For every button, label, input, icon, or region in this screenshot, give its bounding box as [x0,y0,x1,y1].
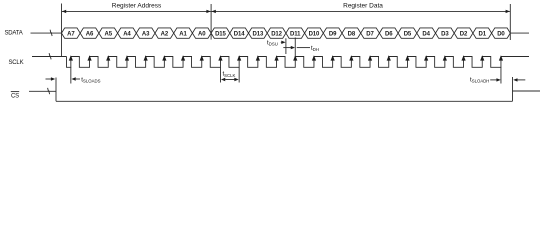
extension of SCLK rising edge r12 up (v2) [294,38,296,57]
svg-text:D1: D1 [479,31,487,37]
wire CS tail high [513,90,541,92]
svg-text:A3: A3 [142,31,150,37]
extension of SCLK rising edge r9 down [238,67,240,82]
svg-text:D14: D14 [234,31,245,37]
svg-text:D3: D3 [441,31,449,37]
svg-text:D5: D5 [404,31,412,37]
svg-text:D15: D15 [215,31,226,37]
wire SDATA bus bottom rail [62,28,511,38]
extension of SCLK rising edge r8 down [219,67,221,82]
svg-text:Register Address: Register Address [112,2,162,9]
wire SDATA bus top rail [62,28,511,38]
svg-text:D11: D11 [290,31,301,37]
dimension tSCLK period arrows [225,79,234,81]
wire SCLK waveform [67,57,530,68]
svg-text:D12: D12 [271,31,282,37]
svg-text:tSLOADH: tSLOADH [470,76,489,83]
svg-text:SCLK: SCLK [9,60,24,66]
svg-text:D9: D9 [329,31,337,37]
dimension tSLOADS left arrow at CS falling edge [46,78,53,80]
svg-text:A7: A7 [67,31,75,37]
svg-text:CS: CS [11,93,19,99]
svg-text:tSLOADS: tSLOADS [81,76,100,83]
wire CS lead-in [29,90,56,92]
break symbol on SDATA lead [50,30,52,36]
svg-text:D4: D4 [422,31,430,37]
svg-text:A6: A6 [86,31,94,37]
svg-text:tSCLK: tSCLK [222,71,235,78]
dimension tSLOADS right arrow and label [71,77,75,80]
dimension arrow Register Address span [62,10,211,12]
svg-text:SDATA: SDATA [5,30,23,36]
wire CS low level [56,100,513,102]
svg-text:A1: A1 [179,31,187,37]
svg-text:D2: D2 [460,31,468,37]
svg-text:D6: D6 [385,31,393,37]
tick address/data boundary [210,4,212,40]
tick end-of-data boundary [509,4,511,40]
svg-text:tDH: tDH [311,45,319,52]
svg-text:A4: A4 [123,31,131,37]
dimension arrow Register Data span [212,10,510,12]
svg-text:D10: D10 [309,31,320,37]
serial write timing diagram [0,0,550,114]
svg-text:D7: D7 [366,31,374,37]
svg-text:A2: A2 [161,31,169,37]
extension of first SCLK rising edge down [70,67,72,83]
svg-text:tDSU: tDSU [267,40,278,47]
svg-text:Register Data: Register Data [343,2,383,9]
svg-text:A0: A0 [198,31,206,37]
svg-text:D13: D13 [252,31,263,37]
svg-text:D8: D8 [348,31,356,37]
wire CS falling edge with extension up [55,78,57,102]
dimension tSLOADH right arrow at CS rising edge [513,78,517,81]
wire SDATA lead-in [31,32,62,34]
break symbol on SCLK lead [49,53,51,59]
wire SDATA tail [510,32,529,34]
svg-text:A5: A5 [105,31,113,37]
extension of data boundary D12/D11 down (v1) [285,38,287,54]
SCLK rising-edge sample arrows [69,55,503,60]
tick start-of-address boundary [61,4,63,57]
wire CS rising edge with extension up [512,77,514,101]
svg-text:D0: D0 [497,31,505,37]
wire SCLK lead-in [32,56,67,58]
label tDH and arrow [283,47,291,49]
extension of last SCLK falling edge down [500,67,502,83]
break symbol on CS lead [48,88,50,94]
